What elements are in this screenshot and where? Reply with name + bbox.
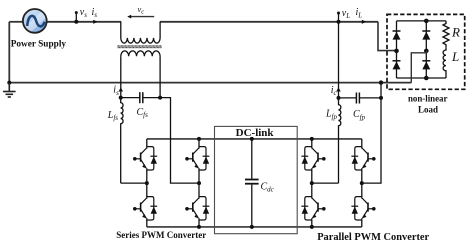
- IGBT S4: [185, 196, 209, 221]
- wire: bridge right mid to neutral: [411, 51, 426, 83]
- IGBT P2: [301, 196, 325, 221]
- svg-text:R: R: [451, 24, 460, 39]
- load bridge left leg: [396, 21, 398, 78]
- load bridge middle leg: [425, 21, 427, 78]
- svg-text:L: L: [451, 49, 459, 64]
- load bridge bottom rail: [397, 77, 447, 79]
- wire: converter bottom rail: [147, 226, 362, 228]
- diode D4: [422, 61, 430, 70]
- DC-link box: [215, 126, 298, 233]
- IGBT S3: [185, 146, 209, 171]
- IGBT S2: [133, 196, 157, 221]
- svg-text:Cfs: Cfs: [137, 107, 149, 119]
- inductor L load: [443, 47, 446, 78]
- non-linear load dashed box: [387, 14, 465, 89]
- svg-text:non-linear: non-linear: [408, 94, 448, 104]
- wire: top line from transformer to load corner: [160, 21, 378, 23]
- wire: secondary right drop: [159, 56, 161, 97]
- wire: top line from source to transformer: [47, 21, 122, 23]
- inductor L_fp: [339, 98, 341, 183]
- node ground junction: [7, 81, 11, 85]
- node bridge bottom: [424, 76, 429, 81]
- svg-text:Lfp: Lfp: [325, 109, 338, 121]
- svg-text:vL: vL: [342, 8, 350, 20]
- node v_s: [74, 11, 78, 24]
- node series left midpoint: [145, 181, 149, 185]
- arrow v_c above transformer: [127, 15, 154, 19]
- wire: neutral drop to parallel right leg midpoint: [362, 83, 381, 184]
- diode D3: [422, 31, 430, 40]
- capacitor C_dc: [245, 139, 259, 227]
- inductor L_fs: [121, 98, 123, 184]
- arrow i_c: [336, 87, 340, 91]
- wire: secondary left drop: [120, 56, 122, 97]
- node series top rail right leg: [197, 137, 201, 141]
- svg-text:Power Supply: Power Supply: [11, 40, 67, 50]
- node v_L: [337, 12, 341, 24]
- series converter right leg: [198, 139, 200, 227]
- wire: left vertical drop: [8, 22, 10, 83]
- resistor R: [443, 21, 449, 47]
- wire: v_L drop to L_fp node: [338, 22, 340, 98]
- wire: L_fp to parallel left leg midpoint: [312, 182, 339, 184]
- node bridge left mid: [394, 49, 399, 54]
- node parallel bottom rail left leg: [310, 225, 314, 229]
- diode D2: [393, 61, 401, 70]
- svg-text:is: is: [113, 85, 119, 97]
- svg-text:Series PWM Converter: Series PWM Converter: [116, 230, 206, 240]
- parallel converter left leg: [311, 139, 313, 227]
- wire: C_fs node to series right leg midpoint: [160, 98, 199, 184]
- transformer T1 primary: [121, 22, 160, 43]
- node parallel left midpoint: [310, 181, 314, 185]
- IGBT P4: [351, 196, 375, 221]
- svg-text:vc: vc: [138, 4, 145, 16]
- node C_dc bottom: [250, 225, 254, 229]
- svg-text:ic: ic: [331, 85, 338, 97]
- node bridge top: [424, 19, 429, 24]
- node parallel right midpoint: [360, 181, 364, 185]
- capacitor C_fp: [339, 93, 382, 104]
- svg-text:Load: Load: [418, 104, 438, 114]
- ground: [3, 83, 16, 97]
- arrow i_L on top wire: [362, 20, 366, 24]
- svg-text:Cdc: Cdc: [261, 181, 275, 193]
- node neutral/load: [379, 80, 383, 84]
- IGBT P1: [301, 146, 325, 171]
- svg-text:DC-link: DC-link: [236, 127, 275, 139]
- arrow i_s on top wire: [93, 20, 97, 24]
- wire: L_fs to series left leg midpoint: [121, 182, 147, 184]
- diode D1: [393, 31, 401, 40]
- node series bottom rail right leg: [197, 225, 201, 229]
- transformer T1 core: [117, 46, 161, 48]
- node L_fp top: [337, 96, 341, 100]
- wire: bottom rail: [9, 82, 411, 84]
- node series right midpoint: [197, 181, 201, 185]
- wire: top line left stub: [9, 21, 23, 23]
- svg-text:vs: vs: [80, 7, 87, 19]
- power supply source: [22, 9, 48, 36]
- capacitor C_fs: [121, 92, 160, 103]
- svg-text:Parallel PWM Converter: Parallel PWM Converter: [317, 232, 429, 243]
- svg-text:is: is: [92, 7, 98, 19]
- node C_dc top: [250, 137, 254, 141]
- load bridge top rail: [397, 20, 447, 22]
- node C_fp right: [379, 96, 383, 100]
- svg-text:Lfs: Lfs: [107, 110, 119, 122]
- transformer T1 secondary: [121, 51, 160, 56]
- svg-text:Cfp: Cfp: [353, 109, 366, 121]
- wire: converter top rail: [147, 138, 362, 140]
- node bridge right mid: [424, 49, 429, 54]
- node parallel top rail left leg: [310, 137, 314, 141]
- IGBT P3: [351, 146, 375, 171]
- IGBT S1: [133, 146, 157, 171]
- svg-text:iL: iL: [356, 7, 363, 19]
- node at C_fs right: [158, 96, 162, 100]
- wire: load entry drop: [378, 22, 397, 51]
- parallel converter right leg: [361, 139, 363, 227]
- node at L_fs top: [119, 96, 123, 100]
- series converter left leg: [146, 139, 148, 227]
- arrow i_s on secondary drop: [119, 87, 123, 91]
